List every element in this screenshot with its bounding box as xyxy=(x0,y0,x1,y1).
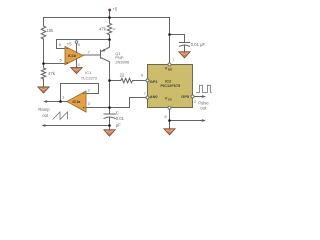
arrowhead C out xyxy=(41,124,45,127)
opamp input plus IC1a xyxy=(83,107,85,109)
node vss return xyxy=(168,119,171,122)
svg-text:47k: 47k xyxy=(99,26,107,31)
pin circle IC2 GP5 pin2 xyxy=(191,95,194,98)
svg-text:Ramp: Ramp xyxy=(38,107,50,112)
svg-text:out: out xyxy=(200,105,207,110)
wire pin5 input xyxy=(44,63,66,65)
wire pulse out xyxy=(194,96,204,98)
wire AN0 path xyxy=(86,98,146,108)
svg-text:C: C xyxy=(116,111,119,116)
pin circle IC2 GP1 pin6 xyxy=(146,79,149,82)
pin circle IC2 VDD pin1 xyxy=(168,63,171,66)
node emitter / feedback xyxy=(108,38,111,41)
svg-text:GP1: GP1 xyxy=(150,79,159,84)
node vdd / bypass xyxy=(168,33,171,36)
wire cap to ground xyxy=(109,126,111,130)
resistor 47k top xyxy=(107,18,111,40)
wire pin8 supply xyxy=(76,43,78,52)
svg-text:DD: DD xyxy=(168,68,172,72)
opamp input plus IC1b xyxy=(66,62,68,64)
transistor Q1 xyxy=(101,40,110,62)
IC2 PIC12F675 body xyxy=(148,65,193,108)
arrowhead ramp out xyxy=(43,100,47,103)
waveform sawtooth ramp xyxy=(53,112,68,120)
ground below 47k left xyxy=(38,87,50,93)
wire to bypass cap xyxy=(170,35,185,43)
svg-text:22: 22 xyxy=(120,73,125,78)
resistor 22 xyxy=(110,78,147,83)
ground bypass cap xyxy=(179,52,191,58)
capacitor C bottom plate xyxy=(104,117,115,126)
wire VDD drop xyxy=(169,18,171,63)
svg-text:1: 1 xyxy=(173,57,175,61)
svg-text:AN0: AN0 xyxy=(150,94,158,99)
svg-text:+5: +5 xyxy=(67,42,72,47)
svg-text:IC1b: IC1b xyxy=(68,54,77,58)
ground IC1b pin4 xyxy=(71,68,83,74)
wire ramp output xyxy=(45,101,67,103)
opamp input minus IC1b xyxy=(66,48,68,50)
wire pin3 input xyxy=(86,107,96,109)
wire C-out left xyxy=(44,125,110,127)
svg-text:PIC12F675: PIC12F675 xyxy=(161,83,182,88)
svg-text:47k: 47k xyxy=(48,71,56,76)
opamp input minus IC1a xyxy=(83,93,85,95)
wire IC1b output to base xyxy=(83,54,101,56)
op-amp U IC1b xyxy=(65,46,83,64)
waveform square pulse xyxy=(196,85,212,92)
ground IC2 VSS xyxy=(164,129,176,135)
wire pin4 down xyxy=(76,60,78,68)
pin circle IC2 VSS pin8 xyxy=(168,106,171,109)
wire VSS ground xyxy=(170,109,204,128)
svg-text:IC1a: IC1a xyxy=(73,100,82,104)
svg-text:out: out xyxy=(42,113,49,118)
svg-text:µF: µF xyxy=(116,122,121,127)
wire feedback pin6 xyxy=(57,40,110,49)
pin circle IC2 AN0 pin7 xyxy=(146,96,149,99)
svg-text:TLC2272: TLC2272 xyxy=(81,75,98,80)
wire pin2 feedback loop xyxy=(61,84,99,102)
node ramp / cap xyxy=(108,106,111,109)
node cap bottom xyxy=(108,124,111,127)
resistor 47k lower-left xyxy=(41,64,45,87)
svg-text:+5: +5 xyxy=(112,7,117,12)
svg-text:0.01 µF: 0.01 µF xyxy=(191,42,206,47)
emitter arrow PNP xyxy=(101,49,105,52)
node top rail / 47k xyxy=(108,16,111,19)
wire +5 terminal drop xyxy=(109,11,111,18)
wire top rail +5 xyxy=(44,17,170,19)
ground below cap C xyxy=(104,130,116,137)
node collector / 22 ohm xyxy=(108,79,111,82)
+5 supply terminal xyxy=(108,9,111,12)
svg-text:2N3906: 2N3906 xyxy=(115,60,130,65)
pin circle IC1b pin8 xyxy=(75,41,78,44)
arrowhead pulse out xyxy=(202,95,206,98)
svg-text:10k: 10k xyxy=(47,28,55,33)
op-amp U IC1a xyxy=(67,91,86,112)
capacitor C top plate xyxy=(104,108,115,115)
svg-text:GP5: GP5 xyxy=(181,94,190,99)
svg-text:SS: SS xyxy=(168,98,172,102)
capacitor 0.01uF plates xyxy=(180,43,190,52)
node divider / pin5 xyxy=(42,62,45,65)
svg-text:0.01: 0.01 xyxy=(116,116,125,121)
wire collector rail xyxy=(109,62,111,108)
resistor R 10k xyxy=(41,18,45,64)
arrowhead ground return xyxy=(202,119,206,122)
node ramp out xyxy=(59,100,62,103)
